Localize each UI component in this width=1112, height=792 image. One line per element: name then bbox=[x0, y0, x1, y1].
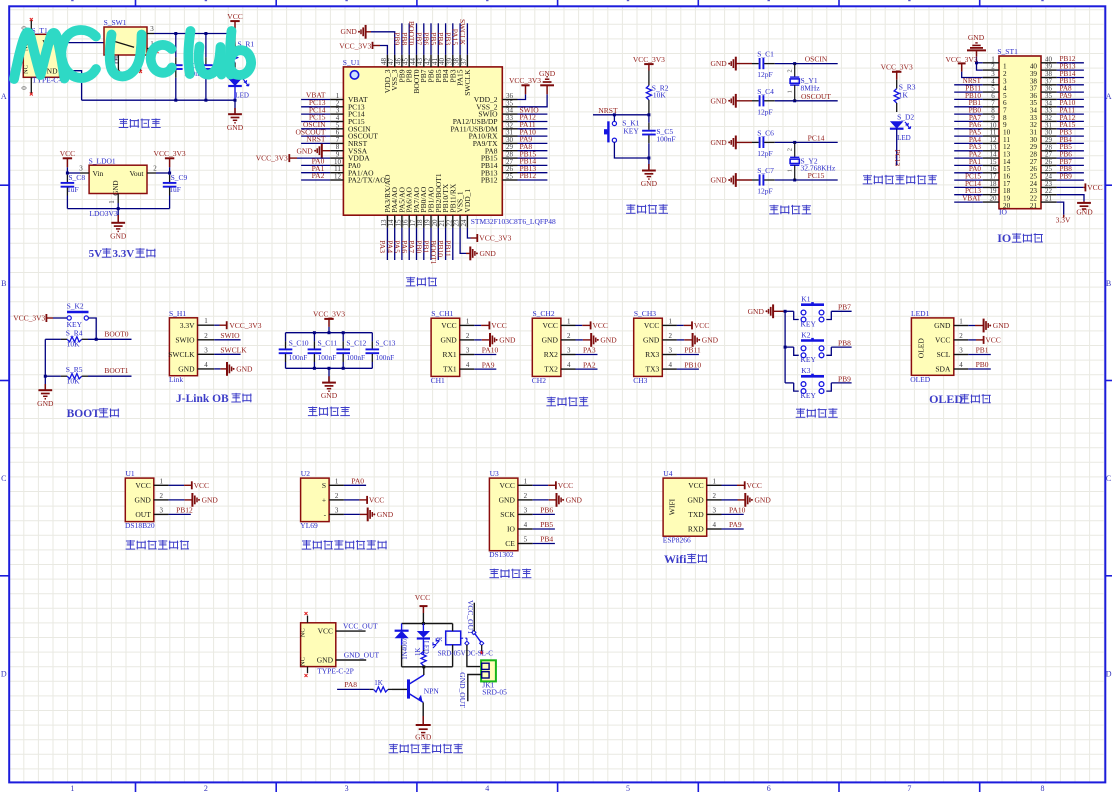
wire wifi U4 pin3 net PA10 bbox=[722, 513, 744, 515]
title clock module 时钟模块 bbox=[490, 569, 499, 571]
svg-text:3: 3 bbox=[524, 506, 528, 514]
svg-text:VCC_OUT: VCC_OUT bbox=[343, 622, 378, 631]
wire ldo bottom rail bbox=[67, 208, 169, 210]
capacitor C13 filter bbox=[371, 333, 373, 342]
ground symbol jlink bbox=[214, 368, 220, 370]
ground symbol connector CH2 pin2 bbox=[576, 339, 583, 341]
svg-text:GND: GND bbox=[110, 231, 127, 240]
svg-text:VCC: VCC bbox=[441, 321, 456, 330]
svg-text:1: 1 bbox=[335, 477, 339, 485]
key K3 wire out bbox=[831, 382, 851, 384]
svg-text:10K: 10K bbox=[67, 339, 81, 348]
wire connector CH2 pin3 net PA3 bbox=[576, 354, 598, 356]
wire OSCOUT row bbox=[775, 100, 838, 102]
svg-text:32.768KHz: 32.768KHz bbox=[801, 164, 836, 173]
svg-text:PA9: PA9 bbox=[729, 520, 742, 529]
svg-text:1: 1 bbox=[204, 317, 208, 325]
wire connector CH3 pin3 net PB11 bbox=[677, 354, 699, 356]
svg-text:1: 1 bbox=[70, 784, 74, 792]
svg-text:GND: GND bbox=[643, 336, 660, 345]
svg-text:3: 3 bbox=[466, 347, 470, 355]
svg-text:2: 2 bbox=[787, 148, 794, 151]
svg-text:PB12: PB12 bbox=[520, 171, 537, 180]
svg-text:VCC: VCC bbox=[593, 321, 608, 330]
wire PC14 row bbox=[775, 141, 838, 143]
svg-text:LDO3V3: LDO3V3 bbox=[89, 209, 118, 218]
svg-text:4: 4 bbox=[712, 521, 716, 529]
ground symbol mcu VSSA row8 bbox=[314, 150, 316, 152]
svg-text:BOOT1: BOOT1 bbox=[104, 366, 128, 375]
svg-text:Vout: Vout bbox=[129, 169, 144, 178]
resistor R3 bbox=[896, 80, 898, 89]
power port VCC wifi U4 pin1 bbox=[722, 484, 738, 486]
resistor R4 bbox=[61, 338, 67, 340]
relay K coil bbox=[446, 631, 461, 645]
svg-text:IO: IO bbox=[507, 525, 515, 534]
svg-text:Wifi: Wifi bbox=[664, 552, 687, 566]
svg-text:J-Link OB: J-Link OB bbox=[176, 393, 229, 405]
wire NRST to key K1 bbox=[613, 115, 615, 122]
svg-text:3: 3 bbox=[79, 165, 83, 173]
svg-text:VCC: VCC bbox=[688, 481, 703, 490]
svg-text:GND: GND bbox=[710, 176, 727, 185]
wire filter bottom rail bbox=[286, 367, 373, 369]
svg-text:SWCLK: SWCLK bbox=[168, 350, 195, 359]
svg-text:OLED: OLED bbox=[910, 375, 931, 384]
wire OLED SCL bbox=[968, 354, 991, 356]
ground symbol mcu VSS_1 bbox=[460, 228, 466, 254]
svg-text:S_U1: S_U1 bbox=[343, 58, 360, 67]
wire T2 VCC_OUT bbox=[336, 630, 366, 632]
svg-text:S_C9: S_C9 bbox=[171, 173, 188, 182]
svg-text:U2: U2 bbox=[301, 469, 310, 478]
svg-text:PB12: PB12 bbox=[176, 506, 193, 515]
capacitor C9 bbox=[169, 173, 171, 175]
svg-text:S: S bbox=[322, 481, 326, 490]
wire BOOT0 row bbox=[45, 338, 61, 340]
power port VCC clock U3 pin1 bbox=[533, 484, 549, 486]
key K2 wire out bbox=[831, 346, 851, 348]
svg-text:VCC_3V3: VCC_3V3 bbox=[13, 314, 45, 323]
svg-text:YL69: YL69 bbox=[300, 521, 318, 530]
svg-text:12pF: 12pF bbox=[757, 107, 772, 116]
svg-text:PB7: PB7 bbox=[838, 303, 851, 312]
svg-text:GND: GND bbox=[135, 496, 152, 505]
svg-text:GND: GND bbox=[341, 27, 358, 36]
svg-text:2: 2 bbox=[466, 332, 470, 340]
svg-text:TXD: TXD bbox=[688, 510, 704, 519]
key K1 bbox=[794, 311, 799, 319]
svg-text:LED: LED bbox=[897, 134, 911, 142]
mcu U1 top pin stubs and numbers bbox=[386, 55, 388, 67]
switch SW1 label bbox=[111, 56, 118, 58]
svg-text:VCC: VCC bbox=[60, 149, 75, 158]
svg-text:3: 3 bbox=[150, 25, 154, 33]
svg-text:VCC_3V3: VCC_3V3 bbox=[339, 41, 371, 50]
sensor U2 body bbox=[301, 478, 330, 521]
power port VCC_3V3 filter bbox=[324, 318, 333, 320]
header ST1 right stubs and numbers bbox=[1041, 62, 1057, 64]
ground symbol relay bbox=[422, 716, 424, 725]
svg-text:RX3: RX3 bbox=[645, 350, 659, 359]
title filter circuit 滤波电路 bbox=[308, 407, 317, 409]
key K1 bbox=[612, 121, 616, 125]
svg-text:NC: NC bbox=[300, 657, 307, 666]
svg-text:GND: GND bbox=[566, 496, 583, 505]
transistor Q1 NPN bbox=[407, 679, 410, 698]
ground symbol connector CH1 pin2 bbox=[474, 339, 481, 341]
connector T2 bottom pin bbox=[307, 667, 309, 674]
wire connector CH1 pin3 net PA10 bbox=[474, 354, 496, 356]
svg-text:GND: GND bbox=[377, 510, 394, 519]
svg-text:TX2: TX2 bbox=[544, 365, 558, 374]
wire LED to GND rail bbox=[234, 86, 236, 100]
wire T2 GND_OUT bbox=[336, 659, 366, 661]
ground symbol boot bbox=[44, 376, 46, 390]
sensor U1 stubs and numbers bbox=[154, 484, 169, 486]
svg-text:S_C11: S_C11 bbox=[318, 339, 338, 348]
svg-text:5V: 5V bbox=[89, 248, 103, 260]
svg-text:S_C12: S_C12 bbox=[346, 339, 366, 348]
wire GND bottom rail bbox=[82, 99, 235, 101]
svg-text:OLED: OLED bbox=[917, 338, 926, 359]
connector JK1 body bbox=[481, 660, 496, 681]
capacitor C4 bbox=[752, 100, 759, 102]
svg-text:S_D2: S_D2 bbox=[897, 113, 914, 122]
svg-text:SWCLK: SWCLK bbox=[220, 346, 247, 355]
svg-text:S_SW1: S_SW1 bbox=[104, 18, 127, 27]
connector T2 top pin bbox=[307, 616, 309, 623]
svg-text:VCC: VCC bbox=[935, 336, 950, 345]
svg-text:NPN: NPN bbox=[424, 687, 440, 696]
svg-text:PA2/TX/AO: PA2/TX/AO bbox=[348, 176, 386, 185]
title power circuit 电源电路 bbox=[119, 118, 128, 120]
header ST1 left stubs and numbers bbox=[983, 62, 999, 64]
mcu U1 left pin stubs and numbers bbox=[330, 99, 343, 101]
svg-text:12pF: 12pF bbox=[757, 187, 772, 196]
svg-text:2: 2 bbox=[567, 332, 571, 340]
svg-text:3: 3 bbox=[204, 346, 208, 354]
svg-text:4: 4 bbox=[959, 361, 963, 369]
LED D2 bbox=[890, 121, 904, 128]
svg-text:VCC: VCC bbox=[369, 496, 384, 505]
svg-text:LED1: LED1 bbox=[911, 309, 930, 318]
connector CH3 stubs and numbers bbox=[662, 324, 677, 326]
svg-text:IO: IO bbox=[997, 231, 1011, 245]
svg-text:VCC: VCC bbox=[747, 481, 762, 490]
svg-text:3.3V: 3.3V bbox=[180, 321, 195, 330]
capacitor C12 filter bbox=[342, 333, 344, 342]
svg-text:8: 8 bbox=[1041, 784, 1045, 792]
wire PA8 bbox=[337, 688, 370, 690]
svg-text:GND: GND bbox=[542, 336, 559, 345]
svg-text:VCC: VCC bbox=[1087, 183, 1102, 192]
svg-text:VCC: VCC bbox=[135, 481, 150, 490]
svg-text:1: 1 bbox=[959, 318, 963, 326]
svg-text:KEY: KEY bbox=[623, 127, 639, 136]
svg-text:S_R4: S_R4 bbox=[66, 328, 83, 337]
wire boot trunk bbox=[44, 339, 46, 376]
svg-text:D: D bbox=[1, 670, 7, 679]
svg-text:12pF: 12pF bbox=[757, 70, 772, 79]
resistor R1 bbox=[234, 34, 236, 49]
svg-text:GND: GND bbox=[710, 138, 727, 147]
svg-text:VCC_OUT: VCC_OUT bbox=[466, 600, 475, 635]
svg-text:4: 4 bbox=[524, 521, 528, 529]
title serial circuit 串口电路 bbox=[547, 397, 556, 399]
resistor R5 bbox=[61, 375, 67, 377]
svg-text:OSCOUT: OSCOUT bbox=[801, 92, 831, 101]
svg-text:GND: GND bbox=[748, 307, 765, 316]
mcu bottom net wires bbox=[386, 228, 388, 260]
header ST1 body bbox=[999, 56, 1041, 209]
LED D4 relay bbox=[422, 624, 424, 632]
svg-text:100nF: 100nF bbox=[346, 353, 365, 362]
ground symbol ST1 pin22 bbox=[1057, 195, 1084, 202]
svg-text:5: 5 bbox=[524, 536, 528, 544]
svg-text:S_H1: S_H1 bbox=[169, 309, 186, 318]
svg-text:GND: GND bbox=[321, 391, 338, 400]
svg-text:GND: GND bbox=[37, 399, 54, 408]
svg-text:VCC_3V3: VCC_3V3 bbox=[881, 63, 913, 72]
connector CH1 stubs and numbers bbox=[460, 324, 475, 326]
svg-text:GND: GND bbox=[480, 249, 497, 258]
svg-text:S_K2: S_K2 bbox=[67, 302, 84, 311]
wire connector CH3 pin4 net PB10 bbox=[677, 368, 699, 370]
svg-text:1N4007: 1N4007 bbox=[402, 637, 409, 660]
wire NRST row bbox=[593, 114, 649, 116]
connector CH1 body bbox=[431, 318, 460, 376]
svg-text:OSCIN: OSCIN bbox=[805, 55, 828, 64]
svg-text:RX2: RX2 bbox=[544, 350, 558, 359]
capacitor C8 bbox=[66, 173, 68, 175]
svg-text:A: A bbox=[1106, 92, 1112, 101]
svg-text:PB6: PB6 bbox=[540, 506, 553, 515]
power port VCC bbox=[230, 20, 239, 22]
wire base bbox=[392, 688, 407, 690]
svg-text:2: 2 bbox=[335, 492, 339, 500]
svg-text:20: 20 bbox=[1003, 202, 1011, 210]
svg-text:PA8: PA8 bbox=[344, 680, 357, 689]
wire relay top rail bbox=[402, 623, 453, 625]
ground symbol sensor U1 pin2 bbox=[169, 499, 185, 501]
svg-text:8MHz: 8MHz bbox=[801, 84, 821, 93]
svg-text:KEY: KEY bbox=[801, 319, 817, 328]
svg-text:VCC: VCC bbox=[542, 321, 557, 330]
svg-text:S_C13: S_C13 bbox=[376, 339, 396, 348]
svg-text:ESP8266: ESP8266 bbox=[663, 536, 691, 545]
wire connector CH1 pin4 net PA9 bbox=[474, 368, 496, 370]
ground symbol clock U3 pin2 bbox=[533, 499, 549, 501]
mcu U1 body bbox=[343, 67, 502, 215]
wire relay bottom rail bbox=[402, 666, 453, 668]
relay contact arm bbox=[472, 630, 476, 634]
capacitor C6 bbox=[752, 141, 759, 143]
connector T1 pin 1 stub bbox=[60, 42, 68, 44]
ground symbol ldo bbox=[117, 209, 119, 223]
svg-text:NC: NC bbox=[300, 628, 307, 637]
svg-text:CE: CE bbox=[505, 539, 515, 548]
svg-text:DS18B20: DS18B20 bbox=[125, 521, 155, 530]
svg-text:GND: GND bbox=[296, 146, 313, 155]
capacitor C3 bbox=[205, 34, 207, 57]
svg-text:2: 2 bbox=[153, 165, 157, 173]
wire VCC top rail bbox=[154, 33, 235, 35]
svg-text:10K: 10K bbox=[67, 376, 81, 385]
power port VCC sensor U2 pin2 bbox=[344, 499, 360, 501]
title temperature module 温度检测模块 bbox=[126, 540, 135, 542]
svg-text:CH3: CH3 bbox=[633, 376, 647, 385]
svg-text:6: 6 bbox=[767, 784, 771, 792]
svg-text:PC13: PC13 bbox=[893, 150, 902, 167]
svg-text:1uF: 1uF bbox=[169, 185, 181, 194]
svg-text:1: 1 bbox=[466, 317, 470, 325]
svg-text:+: + bbox=[322, 496, 326, 505]
svg-text:K2: K2 bbox=[801, 330, 810, 339]
svg-text:GND: GND bbox=[415, 732, 432, 741]
svg-text:100nF: 100nF bbox=[318, 353, 337, 362]
svg-text:SCL: SCL bbox=[937, 350, 951, 359]
svg-text:S_ST1: S_ST1 bbox=[997, 47, 1018, 56]
svg-text:CH1: CH1 bbox=[431, 376, 445, 385]
svg-text:100nF: 100nF bbox=[656, 135, 675, 144]
relay contact dashed link bbox=[461, 637, 467, 639]
svg-text:B: B bbox=[1106, 279, 1111, 288]
svg-text:TX3: TX3 bbox=[646, 365, 660, 374]
svg-text:1: 1 bbox=[787, 169, 794, 172]
power port VCC connector CH2 pin1 bbox=[576, 324, 583, 326]
ground symbol sensor U2 pin3 bbox=[344, 513, 360, 515]
svg-text:GND: GND bbox=[499, 496, 516, 505]
svg-text:VCC: VCC bbox=[194, 481, 209, 490]
title soil moisture module 土壤湿度检测模块 bbox=[302, 540, 311, 542]
regulator LDO1 pin 2 stub bbox=[147, 172, 156, 174]
ground symbol C4 bbox=[728, 100, 730, 102]
connector CH2 body bbox=[532, 318, 561, 376]
svg-text:2: 2 bbox=[712, 492, 716, 500]
svg-text:VCC: VCC bbox=[227, 12, 242, 21]
svg-text:4: 4 bbox=[485, 784, 489, 792]
svg-text:VCC_3V3: VCC_3V3 bbox=[509, 76, 541, 85]
svg-text:2: 2 bbox=[524, 492, 528, 500]
svg-text:PC14: PC14 bbox=[808, 133, 825, 142]
svg-text:PB12: PB12 bbox=[481, 176, 498, 185]
connector T2 TYPE-C-2P body bbox=[301, 623, 336, 667]
ground symbol connector CH3 pin2 bbox=[677, 339, 684, 341]
display LED1 stubs and numbers bbox=[954, 325, 969, 327]
svg-text:VCC_3V3: VCC_3V3 bbox=[154, 149, 186, 158]
svg-text:VCC: VCC bbox=[985, 336, 1000, 345]
svg-text:PA0: PA0 bbox=[351, 477, 364, 486]
svg-text:2: 2 bbox=[160, 492, 164, 500]
power port VCC OLED pin2 bbox=[968, 339, 976, 341]
svg-text:3: 3 bbox=[959, 347, 963, 355]
svg-text:PA2: PA2 bbox=[312, 171, 325, 180]
svg-text:GND: GND bbox=[641, 179, 658, 188]
svg-text:GND: GND bbox=[710, 59, 727, 68]
svg-text:1: 1 bbox=[524, 477, 528, 485]
svg-text:1: 1 bbox=[160, 477, 164, 485]
svg-text:RXD: RXD bbox=[688, 525, 704, 534]
svg-text:GND: GND bbox=[755, 496, 772, 505]
svg-text:3: 3 bbox=[335, 506, 339, 514]
svg-text:VCC: VCC bbox=[491, 321, 506, 330]
header ST1 right net wires bbox=[1057, 62, 1084, 64]
regulator LDO1 pin 1 stub bbox=[117, 194, 119, 204]
wifi U4 body bbox=[663, 478, 707, 536]
svg-text:PA2: PA2 bbox=[583, 360, 596, 369]
junction bottom rail C3 bbox=[204, 99, 207, 102]
svg-text:PB11: PB11 bbox=[684, 346, 701, 355]
svg-text:PB5: PB5 bbox=[540, 520, 553, 529]
svg-text:S_CH2: S_CH2 bbox=[533, 309, 555, 318]
svg-text:GND: GND bbox=[202, 496, 219, 505]
svg-text:3: 3 bbox=[160, 506, 164, 514]
wire PC15 row bbox=[775, 179, 838, 181]
svg-text:C: C bbox=[1106, 474, 1111, 483]
wire keys trunk bbox=[784, 311, 786, 383]
svg-text:LED: LED bbox=[235, 92, 249, 100]
wire connector CH2 pin4 net PA2 bbox=[576, 368, 598, 370]
logo MCUclub bbox=[14, 30, 251, 79]
sensor U2 stubs and numbers bbox=[329, 484, 344, 486]
svg-text:GND: GND bbox=[600, 336, 617, 345]
svg-text:U4: U4 bbox=[663, 469, 672, 478]
ground symbol C6 bbox=[728, 141, 730, 143]
switch SW1 body bbox=[104, 27, 147, 55]
wire OSCIN row bbox=[775, 63, 838, 65]
capacitor C11 filter bbox=[313, 333, 315, 342]
wire K2 to BOOT0 row bbox=[88, 318, 96, 339]
wire sensor U2 pin1 net PA0 bbox=[344, 484, 366, 486]
resistor R2 bbox=[648, 71, 650, 73]
switch SW1 pin 3 stub and number bbox=[147, 33, 154, 35]
svg-text:C: C bbox=[1, 474, 6, 483]
svg-text:VCC_3V3: VCC_3V3 bbox=[479, 234, 511, 243]
wire clock U3 pin4 net PB5 bbox=[533, 528, 555, 530]
relay contact NO stub bbox=[481, 645, 483, 652]
svg-text:PB4: PB4 bbox=[540, 535, 553, 544]
clock U3 stubs and numbers bbox=[518, 484, 533, 486]
svg-text:TYPE-C-2P: TYPE-C-2P bbox=[317, 667, 354, 676]
svg-text:GND: GND bbox=[499, 336, 516, 345]
svg-text:Vin: Vin bbox=[93, 169, 104, 178]
svg-text:0: 0 bbox=[21, 86, 29, 90]
svg-text:VCC: VCC bbox=[694, 321, 709, 330]
power port VCC_3V3 ldo out bbox=[165, 157, 174, 159]
connector T1 pin 2 stub bbox=[60, 70, 68, 72]
display LED1 body bbox=[911, 318, 953, 375]
svg-text:4: 4 bbox=[567, 361, 571, 369]
power port VCC connector CH1 pin1 bbox=[474, 324, 481, 326]
power port VCC_3V3 mcu VDD_2 bbox=[518, 94, 526, 99]
svg-text:12: 12 bbox=[334, 173, 342, 181]
svg-text:RX1: RX1 bbox=[443, 350, 457, 359]
svg-text:GND: GND bbox=[112, 180, 120, 195]
svg-text:20: 20 bbox=[990, 195, 998, 203]
wire vcc to Vin bbox=[67, 172, 80, 174]
svg-text:1uF: 1uF bbox=[67, 185, 79, 194]
wire D2 cathode bbox=[896, 129, 898, 166]
svg-text:PB10: PB10 bbox=[684, 360, 701, 369]
svg-text:VCC: VCC bbox=[558, 481, 573, 490]
power port VCC connector CH3 pin1 bbox=[677, 324, 684, 326]
wire JK1 pin2 to GND_OUT bbox=[468, 675, 481, 702]
svg-text:1K: 1K bbox=[374, 679, 383, 687]
svg-text:OUT: OUT bbox=[135, 510, 151, 519]
svg-text:U1: U1 bbox=[126, 469, 135, 478]
power port VCC sensor U1 pin1 bbox=[169, 484, 185, 486]
